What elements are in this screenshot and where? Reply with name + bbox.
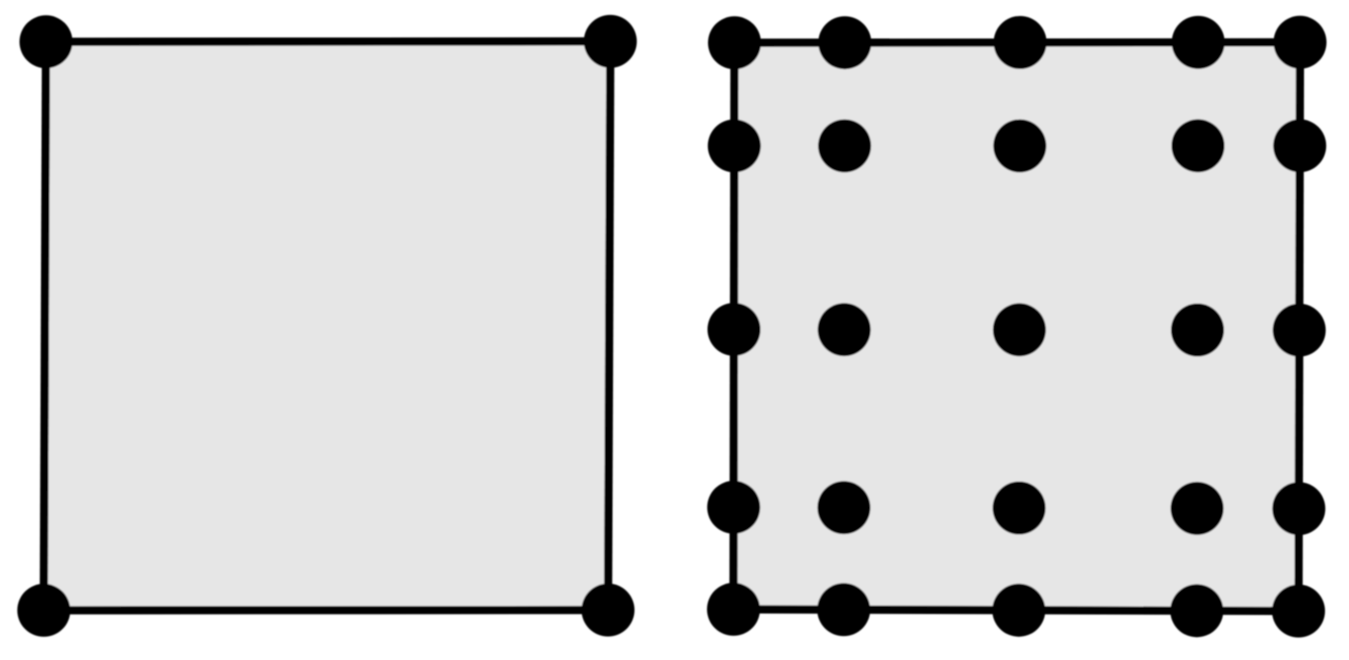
- E1 edge left: [44, 42, 46, 611]
- E2 node r1c2: [818, 16, 871, 69]
- E2 node r1c3: [994, 16, 1047, 69]
- E2 node r3c3: [993, 303, 1046, 356]
- E2 edge bottom: [734, 609, 1299, 611]
- E2 node r5c5: [1272, 585, 1325, 638]
- E2 node r3c5: [1273, 304, 1326, 357]
- E2 edge right: [1299, 42, 1301, 611]
- E2 node r2c1: [708, 119, 761, 172]
- E2 node r3c2: [818, 303, 871, 356]
- E2 node r4c4: [1171, 482, 1224, 535]
- E2 node r4c5: [1272, 482, 1325, 535]
- E2 node r2c3: [993, 119, 1046, 172]
- E2 node r1c4: [1172, 16, 1225, 69]
- E1 edge top: [46, 37, 610, 46]
- E2 node r5c3: [992, 584, 1045, 637]
- element E1 face (4-node quadrilateral): [44, 41, 611, 610]
- E2 edge left: [734, 43, 735, 610]
- E2 node r5c4: [1170, 584, 1223, 637]
- E2 node r2c4: [1172, 119, 1225, 172]
- E1 node 1 (top-left corner): [20, 15, 73, 68]
- E2 edge top: [735, 38, 1301, 47]
- element E2 face (25-node quadrilateral): [734, 42, 1301, 611]
- E2 node r1c1: [708, 16, 761, 69]
- E2 node r4c1: [707, 481, 760, 534]
- E2 node r4c3: [993, 482, 1046, 535]
- E2 node r2c2: [818, 119, 871, 172]
- E1 edge right: [608, 41, 610, 610]
- E2 node r4c2: [817, 481, 870, 534]
- E1 node 4 (bottom-left corner): [17, 584, 70, 637]
- E2 node r2c5: [1273, 119, 1326, 172]
- E2 node r1c5: [1274, 16, 1327, 69]
- E1 edge bottom: [44, 606, 608, 614]
- E2 node r3c1: [708, 303, 761, 356]
- E1 node 2 (top-right corner): [584, 15, 637, 68]
- E2 node r5c2: [817, 583, 870, 636]
- E2 node r5c1: [707, 583, 760, 636]
- E2 node r3c4: [1171, 304, 1224, 357]
- E1 node 3 (bottom-right corner): [582, 584, 635, 637]
